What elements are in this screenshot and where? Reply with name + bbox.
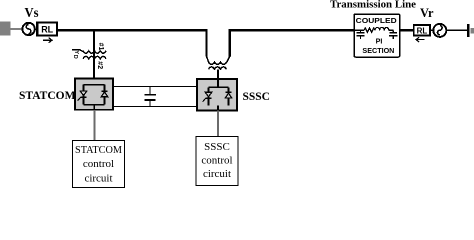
- svg-text:circuit: circuit: [203, 168, 231, 180]
- svg-text:SECTION: SECTION: [362, 46, 394, 55]
- svg-text:SSSC: SSSC: [243, 91, 271, 103]
- svg-text:#2: #2: [96, 61, 103, 69]
- svg-text:Vr: Vr: [420, 5, 434, 20]
- svg-text:PI: PI: [376, 37, 383, 46]
- svg-text:SSSC: SSSC: [204, 141, 230, 153]
- svg-text:#1: #1: [97, 43, 104, 51]
- svg-text:RL: RL: [417, 26, 428, 35]
- svg-text:control: control: [83, 158, 114, 170]
- svg-text:Transmission Line: Transmission Line: [330, 0, 416, 11]
- svg-text:COUPLED: COUPLED: [356, 16, 397, 25]
- svg-text:STATCOM: STATCOM: [19, 90, 76, 102]
- svg-text:STATCOM: STATCOM: [75, 144, 122, 156]
- svg-text:RL: RL: [41, 25, 53, 35]
- svg-text:Y: Y: [73, 50, 79, 54]
- svg-text:control: control: [201, 154, 232, 166]
- svg-text:Vs: Vs: [25, 6, 39, 21]
- svg-text:D: D: [72, 55, 78, 59]
- svg-text:circuit: circuit: [84, 172, 112, 184]
